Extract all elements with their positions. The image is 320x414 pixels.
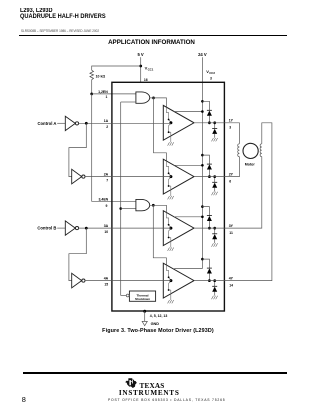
svg-text:GND: GND	[151, 322, 160, 326]
diode D8 lower clamp to GND	[214, 281, 216, 296]
ground hatch below driver U1	[168, 142, 174, 145]
label GND pins 4,5,12,13	[150, 314, 168, 318]
svg-text:1Y: 1Y	[229, 119, 234, 123]
pin number 16	[144, 78, 148, 82]
wire inverter A2 output to 2A pin 7	[85, 176, 171, 178]
svg-text:Control B: Control B	[37, 226, 56, 231]
header revision line	[21, 29, 99, 33]
VCC2 internal rail	[174, 101, 202, 269]
wire inverter B1 output to 3A pin 10	[79, 227, 171, 229]
wire thermal shutdown vertical	[120, 102, 122, 296]
node 24V label	[198, 52, 207, 57]
svg-text:9: 9	[106, 204, 108, 208]
diode D7 upper flyback to VCC2	[202, 259, 209, 281]
wire U3 output 3Y	[194, 227, 225, 229]
pin number 14	[229, 283, 233, 287]
svg-text:Control A: Control A	[37, 121, 56, 126]
wire VCC2 feed to driver U3	[174, 216, 203, 218]
wire U4 output 4Y	[194, 280, 225, 282]
inverter B1	[65, 221, 78, 235]
svg-text:6: 6	[229, 179, 231, 183]
label pin 2Y	[229, 172, 234, 176]
label pin 3,4EN	[98, 198, 108, 202]
pin number 9	[106, 204, 108, 208]
label Control A	[37, 121, 56, 126]
pin number 7	[106, 179, 108, 183]
wire inverter A1 output to 1A pin 2	[79, 122, 171, 124]
svg-text:CC2: CC2	[209, 71, 215, 75]
ground hatch below diode D8	[212, 296, 218, 299]
resistor R 10k	[90, 70, 94, 79]
junction G1 output	[152, 97, 155, 100]
inverter B2	[72, 273, 85, 288]
wire G1 second input from thermal line	[121, 101, 136, 103]
ground hatch below driver U3	[168, 248, 174, 251]
label thermal shutdown	[135, 293, 150, 301]
driver U4 triangle	[163, 263, 194, 298]
ground hatch below diode D6	[212, 243, 218, 246]
driver U1 triangle	[163, 105, 194, 140]
wire jog 1A node to inverter A2 input	[69, 123, 86, 176]
wire Control A to inverter A1	[57, 122, 65, 124]
svg-text:4Y: 4Y	[229, 276, 234, 280]
svg-text:16: 16	[144, 78, 148, 82]
svg-text:14: 14	[229, 283, 233, 287]
wire resistor bottom to 1,2EN node	[91, 80, 93, 94]
driver U1 enable internal dashes	[166, 107, 171, 142]
junction 1,2EN node	[90, 93, 93, 96]
junction node 3A	[85, 227, 88, 230]
pin number 10	[104, 230, 108, 234]
TI logo Texas mark	[125, 378, 137, 388]
label VCC1	[145, 65, 154, 71]
label GND	[151, 322, 160, 326]
svg-text:10 kΩ: 10 kΩ	[96, 74, 106, 78]
junction G2 output	[152, 204, 155, 207]
junction U1 output upper diode	[208, 121, 211, 124]
inductor winding phase A	[238, 144, 240, 157]
junction rail feed U1	[201, 100, 204, 113]
junction U2 output lower diode	[213, 175, 216, 178]
svg-text:4, 5, 12, 13: 4, 5, 12, 13	[150, 314, 168, 318]
svg-text:11: 11	[229, 231, 233, 235]
junction node 1A	[85, 122, 88, 125]
page number	[22, 395, 26, 404]
wire jog 3A node to inverter B2 input	[69, 228, 86, 281]
driver U4 enable internal dashes	[166, 265, 171, 300]
wire 5V to VCC1 pin 16	[140, 57, 142, 82]
driver U4 internal node dots	[168, 276, 173, 291]
pin number 6	[229, 179, 231, 183]
junction rail feed U2	[201, 154, 204, 167]
label Motor	[245, 163, 256, 167]
svg-text:2Y: 2Y	[229, 172, 234, 176]
figure caption	[0, 328, 316, 334]
junction U4 output lower diode	[213, 279, 216, 282]
diode D3 upper flyback to VCC2	[202, 155, 209, 177]
svg-text:4A: 4A	[104, 276, 109, 280]
svg-text:CC1: CC1	[148, 68, 154, 72]
pin number 3	[210, 77, 212, 81]
wire Control B to inverter B1	[57, 227, 65, 229]
label pin 2A	[104, 172, 109, 176]
ground symbol	[142, 321, 147, 325]
wire GND stub	[144, 311, 146, 321]
diode D6 lower clamp to GND	[214, 228, 216, 243]
junction VCC1 node	[139, 65, 142, 68]
ground hatch below diode D4	[212, 192, 218, 195]
junction rail feed U3	[201, 205, 204, 218]
junction U3 output lower diode	[213, 227, 216, 230]
driver U2 internal node dots	[168, 172, 173, 187]
svg-text:3,4EN: 3,4EN	[98, 198, 108, 202]
diode D5 upper flyback to VCC2	[202, 207, 209, 229]
pin number 1	[106, 95, 108, 99]
label pin 1Y	[229, 119, 234, 123]
inductor winding phase B	[260, 144, 262, 157]
svg-text:1,2EN: 1,2EN	[98, 90, 108, 94]
wire 24V to VCC2 pin 3	[201, 57, 203, 101]
header title line 2	[20, 13, 106, 20]
junction U4 output upper diode	[208, 279, 211, 282]
header rule	[19, 35, 287, 37]
svg-text:3Y: 3Y	[229, 224, 234, 228]
TI logo word TEXAS	[140, 382, 165, 390]
wire G2 output branch to driver4 enable	[153, 205, 166, 265]
label pin 1,2EN	[98, 90, 108, 94]
junction GND pin node	[143, 310, 146, 313]
pin number 11	[229, 231, 233, 235]
wire junction to G2 second input	[121, 208, 136, 210]
wire VCC2 feed to driver U1	[174, 111, 203, 113]
terminal circle thermal input	[126, 294, 129, 297]
wire 5V node to resistor top	[92, 66, 141, 70]
junction thermal to G2	[119, 207, 122, 210]
footer address	[108, 398, 220, 402]
diode D1 upper flyback to VCC2	[202, 101, 209, 123]
wire inverter B2 output to 4A pin 15	[85, 280, 171, 282]
ground hatch below driver U4	[168, 300, 174, 303]
junction U1 output lower diode	[213, 121, 216, 124]
pin number 2	[106, 125, 108, 129]
driver U2 triangle	[163, 159, 194, 194]
svg-text:3A: 3A	[104, 224, 109, 228]
svg-text:3: 3	[229, 126, 231, 130]
label pin 3A	[104, 224, 109, 228]
label pin 3Y	[229, 224, 234, 228]
pin number 3	[229, 126, 231, 130]
wire VCC2 feed to driver U2	[174, 164, 203, 166]
wire G2 output to driver3 enable	[149, 205, 166, 213]
diode D4 lower clamp to GND	[214, 177, 216, 192]
driver U3 enable internal dashes	[166, 213, 171, 248]
driver U3 internal node dots	[168, 224, 173, 239]
svg-text:Shutdown: Shutdown	[135, 297, 150, 301]
junction U3 output upper diode	[208, 227, 211, 230]
wire U2 output 2Y	[194, 176, 225, 178]
label VCC2	[206, 69, 215, 75]
svg-text:1: 1	[106, 95, 108, 99]
thermal shutdown block	[129, 291, 155, 301]
wire motor winding bottom to 2Y	[225, 157, 240, 177]
label 10 kOhm	[96, 74, 106, 78]
wire 1,2EN into gate G1	[92, 93, 136, 95]
svg-text:2: 2	[106, 125, 108, 129]
wire 3Y to motor winding B	[225, 123, 272, 281]
driver U3 triangle	[163, 211, 194, 246]
motor M circle	[243, 143, 258, 158]
svg-text:2A: 2A	[104, 172, 109, 176]
gate G2 enable buffer	[136, 199, 150, 210]
svg-text:24 V: 24 V	[198, 52, 207, 57]
svg-text:15: 15	[104, 283, 108, 287]
junction rail diode U4	[201, 258, 204, 261]
IC box outline	[112, 82, 224, 311]
section heading	[0, 39, 303, 46]
TI logo word INSTRUMENTS	[119, 389, 180, 397]
wire G1 output to driver1 enable	[149, 98, 166, 108]
svg-text:Motor: Motor	[245, 163, 256, 167]
svg-text:1A: 1A	[104, 119, 109, 123]
footer rule	[23, 372, 287, 374]
diode D2 lower clamp to GND	[214, 123, 216, 138]
label pin 4A	[104, 276, 109, 280]
node 5V label	[137, 52, 143, 57]
wire EN rail down to 3,4EN	[92, 94, 136, 201]
header title line 1	[20, 8, 53, 14]
svg-text:3: 3	[210, 77, 212, 81]
wire 1Y to motor winding top	[225, 123, 240, 144]
wire U1 output 1Y	[194, 122, 225, 124]
pin number 15	[104, 283, 108, 287]
label Control B	[37, 226, 56, 231]
svg-text:7: 7	[106, 179, 108, 183]
ground hatch below driver U2	[168, 196, 174, 199]
gate G1 enable buffer	[136, 92, 150, 103]
svg-text:10: 10	[104, 230, 108, 234]
junction U2 output upper diode	[208, 175, 211, 178]
svg-text:5 V: 5 V	[137, 52, 143, 57]
driver U2 enable internal dashes	[166, 161, 171, 196]
wire thermal line into block	[121, 295, 127, 297]
inverter A1	[65, 116, 78, 130]
label pin 4Y	[229, 276, 234, 280]
inverter A2	[72, 169, 85, 184]
label pin 1A	[104, 119, 109, 123]
ground hatch below diode D2	[212, 138, 218, 141]
wire G1 output branch to driver2 enable	[154, 98, 167, 161]
driver U1 internal node dots	[168, 119, 173, 134]
